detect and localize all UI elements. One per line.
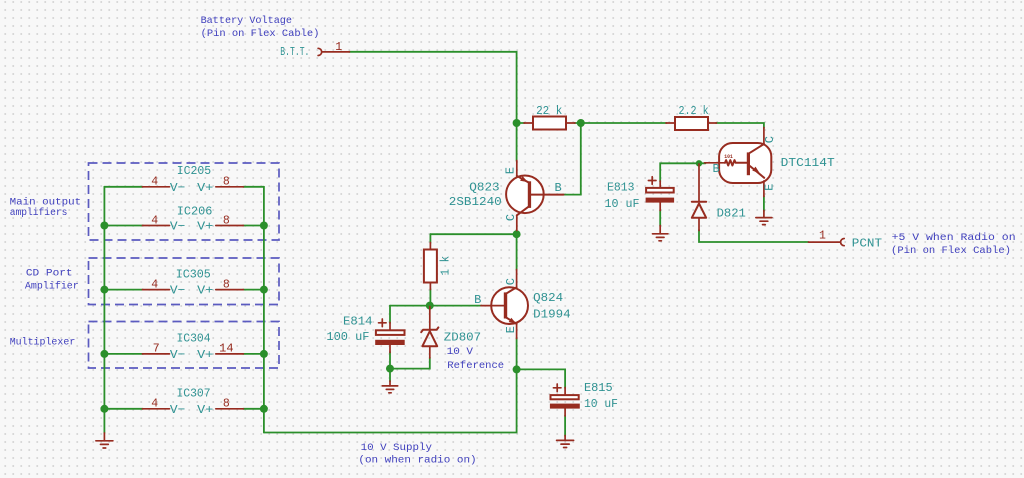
- svg-text:V+: V+: [197, 348, 213, 362]
- svg-text:E: E: [504, 326, 518, 333]
- svg-text:V−: V−: [170, 220, 186, 234]
- node: Q824 base: [426, 302, 434, 310]
- svg-text:Battery Voltage: Battery Voltage: [201, 15, 292, 27]
- wire: IC305 V- lead: [104, 289, 143, 291]
- wire: right IC vertical: [263, 187, 265, 433]
- IC205 power pins: [142, 164, 243, 195]
- node: IC307 right: [260, 405, 268, 413]
- wire: E814 bottom to node: [389, 352, 391, 369]
- node: collectors/1k: [513, 230, 521, 238]
- node: IC307 left: [100, 405, 108, 413]
- ground: E815: [557, 436, 574, 448]
- svg-text:1: 1: [335, 41, 342, 54]
- svg-text:V−: V−: [170, 348, 186, 362]
- svg-text:4: 4: [151, 278, 158, 291]
- svg-text:Reference: Reference: [447, 360, 504, 372]
- svg-text:8: 8: [223, 214, 230, 227]
- svg-text:100 uF: 100 uF: [326, 330, 369, 344]
- resistor R 22k: [524, 104, 575, 130]
- svg-text:IC304: IC304: [177, 332, 211, 346]
- svg-text:Q823: Q823: [469, 180, 499, 194]
- node: IC305 left: [100, 286, 108, 294]
- svg-text:2.2 k: 2.2 k: [679, 104, 709, 118]
- transistor Q823 2SB1240 (PNP): [449, 161, 564, 231]
- svg-text:+5 V when Radio on: +5 V when Radio on: [892, 232, 1016, 244]
- capacitor E814 100uF: [326, 315, 404, 353]
- wire: collector node to 1k top: [430, 233, 516, 235]
- svg-text:22 k: 22 k: [536, 104, 562, 118]
- wire: 1k bottom to base node: [429, 289, 431, 306]
- svg-text:V+: V+: [197, 220, 213, 234]
- svg-text:E814: E814: [343, 315, 373, 329]
- node: 22k left: [513, 119, 521, 127]
- svg-text:1 k: 1 k: [439, 256, 453, 276]
- wire: E813 top link: [660, 163, 696, 181]
- svg-text:4: 4: [151, 214, 158, 227]
- svg-text:10 uF: 10 uF: [584, 397, 618, 411]
- svg-text:D1994: D1994: [533, 308, 571, 322]
- capacitor E815 10uF: [550, 381, 618, 416]
- wire: IC307 V+ lead: [243, 408, 264, 410]
- svg-text:2SB1240: 2SB1240: [449, 195, 502, 209]
- dashed box: Main output amplifiers group: [89, 163, 280, 240]
- svg-text:V+: V+: [197, 181, 213, 195]
- wire: E815 to ground: [564, 416, 566, 437]
- svg-text:4: 4: [151, 398, 158, 411]
- svg-text:PCNT: PCNT: [852, 237, 882, 251]
- ground: DTC114T emitter: [756, 211, 772, 225]
- svg-text:Multiplexer: Multiplexer: [10, 336, 76, 348]
- svg-text:IC307: IC307: [177, 387, 211, 401]
- dashed box: Multiplexer group: [89, 322, 280, 369]
- wire: E814 ground stem: [389, 369, 391, 382]
- svg-text:V−: V−: [170, 403, 186, 417]
- wire: Q823 base to junction: [563, 123, 581, 195]
- node: DTC base: [696, 160, 702, 166]
- svg-text:1: 1: [819, 229, 826, 242]
- wire: node to DTC114T base: [702, 162, 706, 164]
- dashed box: CD Port Amplifier group: [89, 258, 280, 305]
- svg-text:IC305: IC305: [176, 267, 211, 281]
- wire: E814 top drop: [389, 306, 391, 323]
- wire: 22k to 2.2k: [575, 122, 667, 124]
- svg-text:10 uF: 10 uF: [605, 197, 640, 211]
- svg-text:V−: V−: [170, 181, 186, 195]
- svg-text:V−: V−: [170, 284, 186, 298]
- IC305 power pins: [142, 267, 243, 297]
- svg-text:B: B: [474, 293, 481, 307]
- svg-text:C: C: [763, 136, 777, 143]
- wire: IC206 V+ lead: [243, 225, 264, 227]
- transistor U DTC114T (digital NPN): [705, 128, 835, 197]
- svg-text:ZD807: ZD807: [444, 331, 481, 345]
- wire: IC205 V+ lead: [243, 186, 264, 188]
- svg-text:(Pin on Flex Cable): (Pin on Flex Cable): [201, 28, 320, 40]
- wire: IC304 V- lead: [104, 353, 143, 355]
- wire: node to zener bottom: [390, 358, 430, 369]
- node: IC304 right: [260, 350, 268, 358]
- wire: E813 ground stem: [659, 210, 661, 226]
- IC206 power pins: [142, 205, 243, 234]
- svg-text:IC206: IC206: [177, 205, 213, 219]
- wire: junction to 22k left lead: [517, 122, 525, 124]
- svg-text:(on when radio on): (on when radio on): [358, 455, 476, 467]
- ground: E813: [653, 226, 668, 241]
- IC304 power pins: [142, 332, 243, 362]
- node: IC206 left: [100, 222, 108, 230]
- svg-text:C: C: [504, 278, 518, 285]
- svg-text:IC205: IC205: [177, 164, 211, 178]
- IC307 power pins: [142, 387, 243, 417]
- svg-text:4: 4: [151, 176, 158, 189]
- connector B.T.T.: [280, 41, 349, 59]
- svg-text:8: 8: [223, 278, 230, 291]
- svg-text:E815: E815: [584, 381, 613, 395]
- wire: collector column: [516, 230, 518, 270]
- wire: B.T.T. horizontal top: [349, 52, 517, 161]
- wire: IC205 V- lead: [104, 186, 143, 188]
- svg-text:CD Port: CD Port: [26, 267, 73, 279]
- svg-text:14: 14: [219, 343, 233, 356]
- svg-text:B: B: [713, 162, 720, 176]
- node: IC305 right: [260, 286, 268, 294]
- resistor R 1k (vertical): [424, 243, 453, 290]
- svg-text:E: E: [763, 184, 777, 191]
- wire: 1k top drop: [429, 234, 431, 243]
- svg-text:101: 101: [724, 154, 733, 160]
- svg-text:E813: E813: [607, 181, 635, 195]
- svg-text:V+: V+: [197, 403, 213, 417]
- svg-text:C: C: [504, 214, 518, 221]
- transistor Q824 D1994 (NPN): [474, 270, 571, 339]
- node: 22k right: [577, 119, 585, 127]
- svg-text:D821: D821: [717, 207, 746, 221]
- svg-text:(Pin on Flex Cable): (Pin on Flex Cable): [891, 245, 1011, 257]
- svg-text:8: 8: [223, 176, 230, 189]
- svg-text:B.T.T.: B.T.T.: [280, 45, 309, 59]
- wire: 10V supply bottom: [264, 369, 517, 432]
- svg-text:Q824: Q824: [533, 291, 563, 305]
- wire: IC305 V+ lead: [243, 289, 264, 291]
- svg-text:amplifiers: amplifiers: [10, 207, 68, 219]
- wire: IC307 V- lead: [104, 408, 143, 410]
- zener diode ZD807: [421, 307, 481, 359]
- wire: Q824 base row: [390, 305, 482, 307]
- diode D821: [692, 164, 746, 231]
- wire: DTC emitter to ground: [763, 196, 765, 211]
- node: Q824 emitter: [513, 365, 521, 373]
- connector PCNT: [809, 229, 883, 250]
- wire: left IC vertical: [103, 187, 105, 433]
- capacitor E813 10uF: [605, 177, 675, 211]
- svg-text:B: B: [555, 181, 562, 195]
- wire: IC304 V+ lead: [243, 353, 264, 355]
- wire: D821 bottom to PCNT: [699, 230, 809, 242]
- svg-text:DTC114T: DTC114T: [781, 156, 835, 170]
- svg-text:10 V Supply: 10 V Supply: [361, 442, 432, 454]
- svg-text:Amplifier: Amplifier: [25, 281, 79, 293]
- node: IC206 right: [260, 222, 268, 230]
- node: IC304 left: [100, 350, 108, 358]
- wire: Q824 emitter node right to E815: [517, 338, 566, 388]
- svg-text:V+: V+: [197, 284, 213, 298]
- svg-text:E: E: [504, 167, 518, 174]
- wire: IC206 V- lead: [104, 225, 143, 227]
- svg-text:10 V: 10 V: [447, 346, 474, 358]
- wire: 2.2k to DTC114T collector: [716, 123, 764, 128]
- svg-text:8: 8: [223, 398, 230, 411]
- ground: left IC column: [96, 433, 113, 448]
- resistor R 2.2k: [666, 104, 717, 130]
- svg-text:7: 7: [153, 343, 160, 356]
- node: E814 bottom: [386, 365, 394, 373]
- ground: E814: [382, 381, 397, 393]
